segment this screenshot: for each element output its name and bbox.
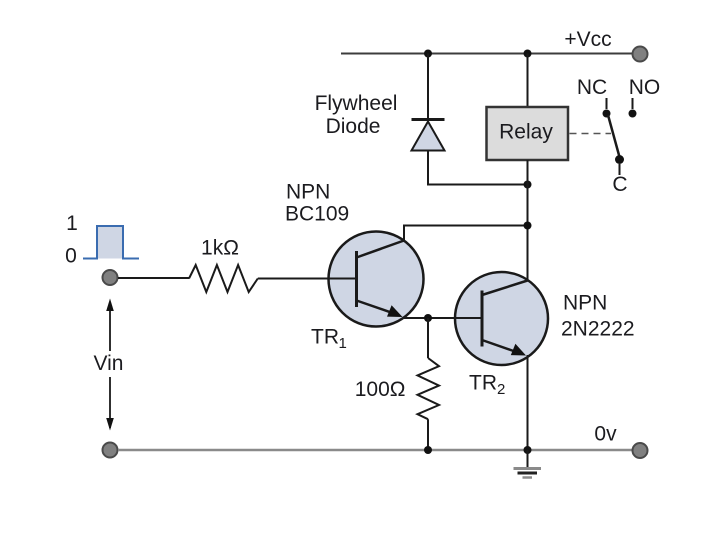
wire relay top [527,54,529,108]
svg-text:Vin: Vin [94,352,124,375]
input pulse waveform [83,226,139,259]
svg-text:1kΩ: 1kΩ [201,237,239,260]
wire resistor to TR1 base [258,278,357,280]
wire diode bottom [428,151,526,185]
svg-text:Diode: Diode [326,115,381,138]
svg-text:1: 1 [66,212,78,235]
node junction TR2 base [424,314,432,322]
resistor R2 100 [418,358,440,419]
svg-text:0v: 0v [594,423,617,446]
svg-text:2: 2 [497,381,505,398]
svg-text:NO: NO [629,76,661,99]
node junction top relay [524,50,532,58]
node junction TR2 emitter ground [524,446,532,454]
node junction resistor ground [424,446,432,454]
wire diode top [427,54,429,119]
wire TR2 emitter [527,355,529,450]
label NPN 2N2222 [561,292,635,341]
svg-text:NC: NC [577,76,607,99]
wire relay bottom to TR2 collector [527,160,529,281]
node junction TR1 collector [524,222,532,230]
Vin arrow [106,299,114,431]
svg-text:Relay: Relay [499,121,553,144]
label TR2 [469,371,505,398]
svg-text:+Vcc: +Vcc [564,28,611,51]
diode D1 flywheel [412,120,445,151]
svg-text:NPN: NPN [286,181,330,204]
transistor TR2 2N2222 [455,272,548,365]
svg-text:TR: TR [469,371,497,394]
node junction diode-relay [524,181,532,189]
svg-text:2N2222: 2N2222 [561,318,635,341]
switch contact NO [629,98,637,118]
wire 100ohm top [427,318,429,358]
svg-text:NPN: NPN [563,292,607,315]
terminal bottom right [633,443,648,458]
wire 100ohm bottom [427,419,429,450]
switch arm C [608,115,624,175]
svg-text:TR: TR [311,326,339,349]
wire TR1 emitter to TR2 base [404,317,482,319]
wire TR1 collector [404,226,528,241]
wire input to resistor [118,277,189,279]
relay K1 [487,107,569,160]
label Flywheel Diode [315,92,398,138]
wire dashed relay to switch [570,133,612,135]
svg-text:0: 0 [65,245,77,268]
transistor TR1 BC109 [328,232,424,327]
terminal input [103,270,118,285]
resistor R1 1k [189,265,258,292]
svg-text:C: C [612,173,627,196]
wire 0v rail [118,449,634,452]
terminal bottom left [103,443,118,458]
terminal +Vcc [633,47,648,62]
node junction top diode [424,50,432,58]
label TR1 [311,326,347,353]
svg-text:Flywheel: Flywheel [315,92,398,115]
svg-text:1: 1 [339,335,347,352]
ground symbol [514,450,542,478]
wire top +Vcc rail [341,53,634,55]
label NPN BC109 [285,181,349,226]
svg-text:BC109: BC109 [285,203,349,226]
switch contact NC [603,98,611,118]
svg-text:100Ω: 100Ω [355,378,406,401]
